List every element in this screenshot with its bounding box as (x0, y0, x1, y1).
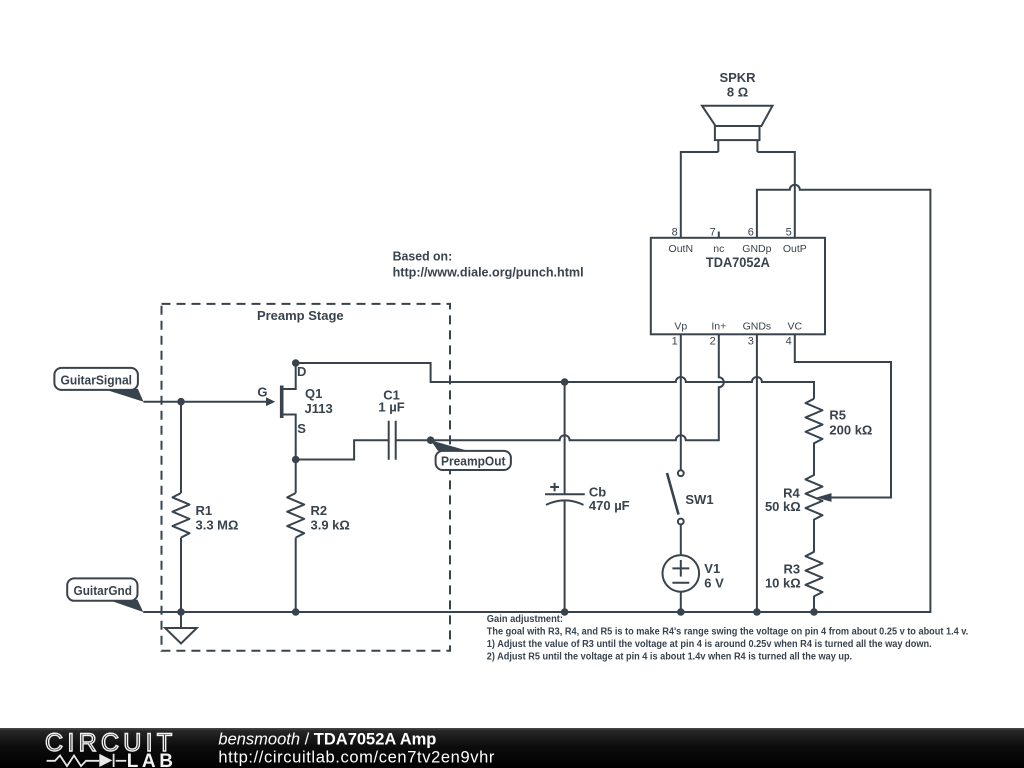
svg-text:2) Adjust R5 until the voltage: 2) Adjust R5 until the voltage at pin 4 … (487, 652, 852, 663)
svg-text:bensmooth / TDA7052A Amp: bensmooth / TDA7052A Amp (218, 731, 436, 749)
svg-text:R1: R1 (196, 503, 213, 518)
svg-text:4: 4 (786, 336, 792, 348)
svg-text:8: 8 (672, 227, 678, 239)
svg-text:3.3 MΩ: 3.3 MΩ (196, 518, 239, 533)
svg-text:Preamp Stage: Preamp Stage (257, 308, 344, 323)
svg-text:Q1: Q1 (305, 386, 322, 401)
svg-text:R2: R2 (311, 503, 328, 518)
svg-text:10 kΩ: 10 kΩ (765, 576, 801, 591)
svg-text:http://circuitlab.com/cen7tv2e: http://circuitlab.com/cen7tv2en9vhr (218, 749, 495, 767)
svg-text:http://www.diale.org/punch.htm: http://www.diale.org/punch.html (393, 264, 584, 279)
svg-text:5: 5 (786, 227, 792, 239)
svg-text:LAB: LAB (127, 751, 177, 768)
svg-text:8 Ω: 8 Ω (727, 85, 748, 100)
svg-text:Based on:: Based on: (393, 248, 453, 263)
svg-text:Vp: Vp (674, 321, 687, 333)
svg-text:6 V: 6 V (704, 576, 724, 591)
svg-text:200 kΩ: 200 kΩ (829, 423, 872, 438)
svg-text:1) Adjust the value of R3 unti: 1) Adjust the value of R3 until the volt… (487, 639, 932, 650)
svg-text:GuitarSignal: GuitarSignal (61, 373, 133, 388)
svg-text:R3: R3 (783, 561, 800, 576)
svg-text:OutN: OutN (669, 243, 694, 255)
svg-text:SW1: SW1 (685, 492, 713, 507)
svg-text:TDA7052A: TDA7052A (706, 255, 770, 271)
svg-text:VC: VC (788, 321, 803, 333)
svg-text:In+: In+ (711, 321, 726, 333)
svg-text:PreampOut: PreampOut (441, 454, 506, 469)
svg-text:GNDp: GNDp (742, 243, 771, 255)
svg-text:The goal with R3, R4, and R5 i: The goal with R3, R4, and R5 is to make … (487, 627, 969, 638)
svg-text:R5: R5 (829, 408, 846, 423)
svg-text:3: 3 (748, 336, 754, 348)
svg-text:S: S (297, 421, 306, 436)
svg-text:470 µF: 470 µF (589, 498, 630, 513)
svg-text:7: 7 (710, 227, 716, 239)
svg-text:2: 2 (710, 336, 716, 348)
svg-text:G: G (257, 385, 267, 400)
svg-text:1 µF: 1 µF (378, 400, 404, 415)
svg-text:J113: J113 (305, 401, 333, 416)
svg-text:D: D (297, 364, 306, 379)
svg-text:OutP: OutP (783, 243, 807, 255)
svg-text:Gain adjustment:: Gain adjustment: (487, 614, 563, 625)
svg-text:SPKR: SPKR (719, 70, 756, 85)
svg-text:1: 1 (672, 336, 678, 348)
svg-text:3.9 kΩ: 3.9 kΩ (311, 518, 350, 533)
svg-text:nc: nc (713, 243, 724, 255)
svg-text:50 kΩ: 50 kΩ (765, 499, 801, 514)
svg-text:GuitarGnd: GuitarGnd (74, 583, 133, 598)
svg-text:GNDs: GNDs (743, 321, 772, 333)
svg-text:6: 6 (748, 227, 754, 239)
svg-text:V1: V1 (704, 561, 720, 576)
